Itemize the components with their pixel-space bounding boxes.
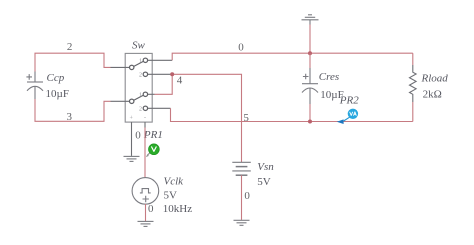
svg-text:Vsn: Vsn — [257, 161, 274, 173]
wire (Vsn bottom to ground) — [241, 175, 243, 220]
svg-text:PR2: PR2 — [339, 94, 359, 106]
wire net 4 — [155, 74, 242, 162]
svg-text:5V: 5V — [164, 189, 178, 201]
svg-text:0: 0 — [244, 190, 250, 202]
junction node 4 — [170, 72, 174, 76]
svg-text:2kΩ: 2kΩ — [423, 88, 442, 100]
junction node 5 — [308, 120, 312, 124]
svg-text:0: 0 — [148, 203, 154, 215]
svg-text:0: 0 — [238, 41, 244, 53]
wire (Vclk bottom to ground) — [145, 204, 147, 221]
voltage source Vsn (battery) — [232, 162, 251, 175]
capacitor Cres — [302, 68, 318, 104]
resistor Rload — [410, 65, 417, 102]
wire (ground to top rail) — [309, 25, 311, 54]
probe PR2 pointer — [337, 117, 350, 124]
wire (switch - pin to Vclk) — [144, 128, 146, 178]
clock source Vclk — [132, 178, 159, 205]
probe PR2 — [348, 109, 358, 119]
svg-text:1: 1 — [139, 58, 142, 64]
wire net 5 (bottom rail) — [171, 108, 413, 121]
ground (Vclk) — [138, 221, 154, 226]
svg-text:3: 3 — [67, 111, 73, 123]
wire (Rload top) — [412, 53, 414, 65]
svg-text:Vclk: Vclk — [164, 175, 185, 187]
svg-text:-: - — [144, 115, 146, 121]
svg-text:Sw: Sw — [132, 39, 146, 51]
switch Sw body — [111, 53, 173, 155]
switch pin labels — [130, 58, 147, 121]
svg-text:2: 2 — [67, 41, 73, 53]
wire (Cres top) — [309, 53, 311, 68]
svg-text:0: 0 — [135, 130, 141, 142]
svg-text:10kHz: 10kHz — [163, 203, 192, 215]
ground (top, above Cres) — [302, 15, 319, 25]
svg-text:2: 2 — [139, 106, 142, 112]
svg-text:5: 5 — [243, 112, 249, 124]
wire net 2 (cap top to switch pole 1) — [35, 53, 111, 71]
probe PR1 pointer — [146, 153, 150, 157]
svg-text:Cres: Cres — [319, 71, 339, 83]
wire (Rload bottom) — [412, 102, 414, 122]
capacitor Ccp — [26, 72, 43, 100]
ground (Vsn) — [234, 220, 250, 225]
svg-text:10µF: 10µF — [46, 88, 69, 100]
svg-text:Rload: Rload — [421, 73, 449, 85]
wire net 3 (cap bottom to switch pole 2) — [35, 99, 111, 121]
svg-text:2: 2 — [139, 72, 142, 78]
junction node 0 — [308, 51, 312, 55]
svg-text:PR1: PR1 — [143, 129, 163, 141]
probe PR1 — [149, 144, 160, 155]
wire net 0 (top rail) — [172, 53, 413, 60]
svg-text:Ccp: Ccp — [47, 72, 65, 84]
svg-text:5V: 5V — [257, 176, 271, 188]
svg-text:1: 1 — [139, 92, 142, 98]
wire (Cres bottom) — [309, 104, 311, 122]
svg-text:4: 4 — [177, 75, 183, 87]
ground (switch + pin) — [124, 156, 140, 161]
